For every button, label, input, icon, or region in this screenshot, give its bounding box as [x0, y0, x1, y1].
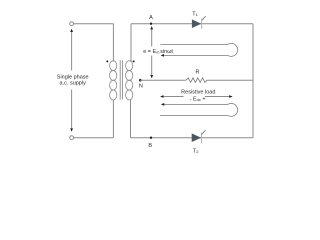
wire bottom-left — [74, 137, 114, 139]
current loop i2 arrowhead — [161, 103, 164, 106]
dimension arrow right — [205, 96, 232, 98]
ac supply arrowhead down — [70, 128, 73, 131]
wire primary riser top — [112, 24, 114, 62]
dimension arrow left — [161, 96, 184, 98]
wire top-left — [74, 23, 114, 25]
svg-text:R: R — [196, 69, 200, 75]
thyristor T2 — [192, 130, 206, 143]
ac supply arrowhead up — [70, 29, 73, 32]
right bus — [252, 24, 254, 138]
current loop i1 arrowhead — [161, 54, 164, 57]
ac supply voltage arrow line lower — [71, 90, 73, 131]
svg-text:- Edc +: - Edc + — [190, 97, 206, 103]
current loop i1 — [161, 43, 238, 56]
terminal top-left — [70, 22, 74, 26]
wire secondary riser bottom — [130, 100, 132, 138]
center tap stub — [130, 79, 132, 81]
node N — [139, 79, 142, 82]
emf arrow line lower — [151, 56, 153, 77]
transformer secondary winding — [126, 61, 133, 100]
svg-text:B: B — [148, 143, 152, 149]
wire resistor to bus — [207, 79, 253, 81]
wire primary riser bottom — [112, 100, 114, 138]
svg-text:Single phase: Single phase — [57, 74, 89, 80]
current loop i2 — [160, 103, 238, 116]
wire center tap to resistor — [140, 79, 186, 81]
svg-text:T2: T2 — [193, 149, 199, 155]
svg-text:Resistive load: Resistive load — [181, 90, 215, 96]
emf arrowhead up — [150, 26, 153, 29]
emf arrow line upper — [151, 29, 153, 47]
svg-text:N: N — [139, 84, 143, 90]
wire secondary riser top — [130, 24, 132, 62]
svg-text:e = Emsinωt: e = Emsinωt — [143, 49, 173, 55]
svg-text:T1: T1 — [192, 11, 198, 17]
wire bottom B to bus — [131, 137, 254, 139]
node B — [150, 137, 152, 139]
node A — [150, 23, 152, 25]
polarity dot secondary — [133, 60, 135, 62]
svg-text:a.c. supply: a.c. supply — [60, 81, 87, 87]
emf arrowhead down — [150, 75, 153, 78]
ac supply voltage arrow line upper — [71, 31, 73, 71]
thyristor T1 — [192, 16, 206, 29]
terminal bottom-left — [70, 136, 74, 140]
svg-text:A: A — [149, 15, 153, 21]
transformer primary winding — [110, 61, 117, 100]
transformer core — [119, 60, 121, 99]
resistor R — [186, 78, 207, 83]
polarity dot primary — [106, 60, 108, 62]
wire top A to bus — [131, 23, 253, 25]
